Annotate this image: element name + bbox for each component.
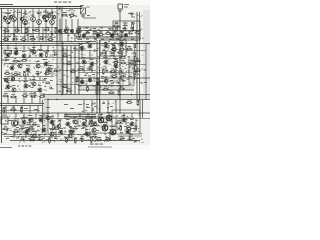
transistor Q15 [64,29,67,32]
wire [118,117,134,119]
value label [86,39,89,40]
component unit [126,126,132,130]
resistor R4 [4,50,6,53]
value label [16,138,19,139]
connector J1 [118,4,123,9]
value label [81,16,85,17]
component unit [111,46,117,50]
wire [45,21,47,33]
component unit [87,66,92,70]
component unit [105,31,111,35]
component unit [85,30,90,34]
component unit [39,94,45,98]
value label [80,78,84,79]
block outline [112,110,140,134]
component unit [62,53,68,57]
dashed block boundary [29,12,57,37]
wire [51,24,53,33]
transistor Q32 [36,64,40,68]
component unit [120,73,125,77]
wire [13,9,15,17]
wire [0,112,150,114]
dashed block boundary [2,48,30,64]
component unit [110,68,116,72]
value label [111,55,114,56]
value label [115,28,118,29]
transistor Q6 [23,20,28,25]
component body knots [7,20,133,135]
component unit [70,69,76,73]
component unit [53,68,58,72]
transistor Q39 [120,42,124,46]
text speckle [108,43,137,85]
component unit [45,52,48,58]
component unit [80,136,85,140]
wire [84,66,116,73]
junction [15,118,124,135]
value label [114,61,118,62]
value label [37,126,40,127]
wire [8,46,48,51]
value label [42,125,46,126]
wire [56,84,78,86]
value label [89,117,93,118]
value label [44,37,48,38]
value label [2,115,7,116]
wire [16,113,132,117]
value label [120,132,123,133]
value label [112,126,115,127]
component unit [113,23,119,27]
shielded bus ribbon V1 [57,6,62,97]
value label [131,17,135,18]
resistor R123 [134,71,136,74]
component unit [22,93,28,97]
transistor Q12 [47,14,50,17]
transistor Q51 [96,81,100,85]
value label [122,56,125,57]
wire [0,27,57,29]
wire [38,117,54,119]
transistor Q40 [82,60,86,64]
transistor Q36 [88,44,92,48]
caption text [90,144,103,145]
wire [54,57,96,59]
wire [32,9,34,17]
wire V+ bus [0,6,82,8]
text speckle [44,48,79,95]
component unit [38,137,43,141]
wire [126,64,146,66]
value label [82,57,86,58]
wire [60,19,78,29]
wire [76,30,141,32]
component unit [123,23,128,27]
value label [54,138,57,139]
component unit [78,31,82,37]
wire [4,80,46,82]
transistor Q41 [90,62,94,66]
component unit [96,137,102,141]
component unit [19,126,24,130]
transistor Q43 [114,64,118,68]
value label [39,50,43,51]
transistor Q48 [38,88,42,92]
component unit [62,84,68,88]
component unit [47,37,53,41]
wire [134,56,136,62]
component unit [131,23,135,29]
transistor Q22 [4,78,7,81]
component unit [52,124,55,130]
transistor Q31 [26,68,30,72]
component unit [112,31,118,35]
transistor Q5 [12,17,17,22]
value label [6,82,10,83]
component unit [135,68,141,72]
transistor Q3 [20,17,23,20]
wire [76,36,140,38]
wire bus [0,45,80,47]
text speckle [80,41,127,75]
value label [32,47,36,48]
text speckle [76,76,124,88]
transistor Q2 [9,15,12,18]
value label [31,15,35,16]
wire [20,117,36,119]
value label [94,106,97,107]
component unit [53,52,58,56]
transistor Q23 [11,77,14,80]
component unit [86,86,89,92]
wire [8,120,12,122]
component unit [30,36,36,40]
wire [14,130,40,132]
resistor R12 [46,82,49,84]
wire [54,70,96,72]
resistor R133 [132,28,134,31]
shielded bus ribbon H2 [44,95,150,100]
value label [110,106,113,107]
value label [131,22,134,23]
value label [113,58,116,59]
component unit [35,71,40,75]
value label [144,82,147,83]
component unit [54,27,58,33]
value label [50,80,53,81]
transistor Q54 [29,118,33,122]
wire [64,116,96,118]
wire [78,26,120,28]
value label [130,119,134,120]
wire [24,24,26,33]
wire [18,119,136,125]
transistor Q59 [42,128,46,132]
wire [82,50,122,59]
component unit [120,60,126,64]
component unit [74,137,78,143]
transistor Q17 [76,29,79,32]
wire bus [0,43,150,45]
component unit [61,12,67,16]
wire [54,50,96,52]
level meter M1 [81,8,86,14]
component unit [13,71,19,75]
value label [128,46,131,47]
component unit [25,28,29,34]
component unit [126,99,132,103]
wire [54,63,96,65]
value label [86,107,90,108]
shielded bus ribbon V2 [129,56,134,86]
transistor Q46 [24,84,28,88]
resistor R7 [30,50,33,52]
value label [130,28,133,29]
component unit [3,126,9,130]
value label [10,136,13,137]
component unit [48,137,51,143]
transistor Q26 [22,54,26,58]
component unit [23,71,26,77]
value label [60,128,63,129]
wire [82,78,106,80]
value label [26,65,30,66]
transistor Q11 [42,15,45,18]
transistor Q45 [12,88,16,92]
value label [28,138,31,139]
component unit [3,28,9,32]
text speckle [2,47,56,78]
text speckle [130,12,143,16]
value label [4,133,7,134]
text speckle [4,10,74,17]
component unit [65,137,68,143]
resistor R131 [116,28,118,31]
component unit [119,86,125,90]
wire [0,4,13,6]
value label [14,48,18,49]
value label [86,132,89,133]
value label [103,124,106,125]
value label [90,126,93,127]
wire [134,74,136,80]
value label [39,115,43,116]
power transistor Q72 [106,115,112,121]
wire [0,110,40,112]
value label [66,119,70,120]
transistor Q38 [112,47,116,51]
transistor Q68 [122,118,126,122]
wire [14,131,130,138]
value label [29,115,33,116]
value label [130,134,133,135]
value label [112,44,115,45]
component unit [14,27,20,31]
value label [103,57,106,58]
resistor R5 [10,51,12,54]
value label [124,126,127,127]
value label [126,127,130,128]
value label [104,57,108,58]
value label [79,39,82,40]
caption text [18,146,31,147]
value label [32,79,36,80]
transistor Q90 [12,120,18,126]
dashed block boundary [2,13,27,37]
wire [4,63,54,65]
component unit [129,60,134,64]
component unit [44,71,50,75]
component unit [44,27,50,31]
value label [70,108,74,109]
text speckle [127,55,146,83]
value label [66,138,69,139]
wire [63,46,79,95]
value label [81,128,84,129]
value label [22,51,26,52]
component unit [98,31,104,35]
component unit [111,74,117,78]
wire [1,8,3,143]
wire [4,76,54,78]
value label [10,63,14,64]
value label [86,104,89,105]
value label [36,61,40,62]
wire [10,140,140,142]
component unit [102,69,106,75]
value label [134,128,137,129]
component unit [101,50,107,54]
component unit [90,136,94,142]
wire [76,80,126,82]
value label [78,28,81,29]
IC U1 outline [100,40,126,56]
value label [80,5,84,6]
value label [86,42,89,43]
shielded bus ribbon V3 [43,100,49,134]
value label [131,60,134,61]
value label [50,132,53,133]
transistor Q37 [104,44,108,48]
value label [104,42,108,43]
component unit [66,88,72,92]
value label [119,57,122,58]
transistor Q8 [37,20,42,25]
value label [64,104,68,105]
wire [24,9,26,20]
component unit [32,122,37,126]
value label [102,103,105,104]
component unit [34,27,40,31]
transistor Q53 [22,120,26,124]
component unit [69,13,75,17]
wire [2,134,96,136]
wire [84,100,116,113]
value label [96,130,99,131]
component unit [20,37,26,41]
wire [0,8,82,10]
value label [99,114,104,115]
transistor Q44 [6,85,10,89]
value label [43,12,47,13]
value label [131,39,134,40]
value label [109,39,112,40]
wire [136,12,138,100]
component unit [108,90,114,94]
component unit [4,70,10,74]
value label [124,4,129,5]
value label [108,28,111,29]
value label [69,127,73,128]
value label [49,13,53,14]
component unit [113,59,119,63]
component unit [127,137,132,141]
value label [87,15,90,16]
value label [85,129,89,130]
component unit [103,86,109,90]
value label [128,76,132,77]
wire [99,40,101,113]
component unit [54,126,60,130]
value label [123,39,126,40]
transistor Q75 [57,124,61,128]
transistor Q66 [85,132,89,136]
component unit [126,46,132,50]
value label [82,119,86,120]
value label [94,39,97,40]
transistor Q29 [10,66,14,70]
value label [48,65,52,66]
component unit [117,50,123,54]
text speckle [76,28,144,42]
wire [119,9,121,113]
value label [63,8,67,9]
value label [94,138,97,139]
wire [13,21,15,33]
text speckle [1,114,144,142]
component unit [118,68,123,72]
component unit [39,36,44,40]
value label [122,138,125,139]
component unit [2,93,8,97]
value label [78,104,82,105]
value label [23,13,27,14]
wire [80,31,136,34]
power transistor Q73 [102,125,108,131]
connector OUT [1,117,8,124]
wire [118,135,142,137]
wire [64,117,80,119]
value label [103,122,108,123]
value label [24,108,28,109]
value label [122,80,125,81]
wire [4,91,42,93]
component unit [20,107,23,113]
wire [32,21,34,33]
value label [3,21,6,22]
value label [26,129,29,130]
wire [78,72,130,74]
transistor Q69 [130,122,134,126]
value label [120,40,124,41]
wire [139,100,141,118]
transistor Q49 [80,80,84,84]
wire [145,44,147,100]
value label [6,13,10,14]
value label [78,134,81,135]
component unit [69,128,75,132]
title text [54,2,71,3]
